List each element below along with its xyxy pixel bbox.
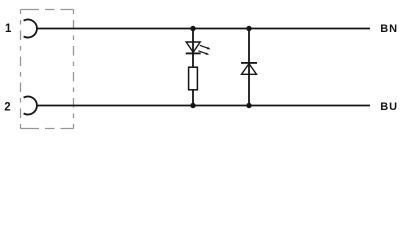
svg-text:1: 1 bbox=[5, 23, 12, 35]
svg-text:BN: BN bbox=[380, 23, 398, 35]
svg-text:BU: BU bbox=[380, 101, 398, 113]
svg-text:2: 2 bbox=[4, 102, 10, 114]
